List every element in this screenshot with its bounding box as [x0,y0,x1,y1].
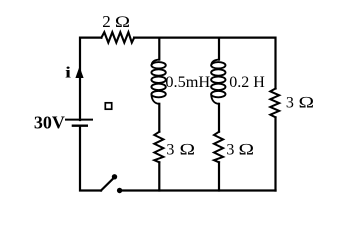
switch S1 blade (open) [101,178,114,190]
svg-text:Ω: Ω [298,94,314,112]
resistor R4 3ohm (right) [270,89,279,118]
switch S1 contact dot left [112,174,117,179]
inductor L1 0.5mH coil [151,60,165,104]
resistor R2 3ohm (branch 1) [154,132,163,163]
svg-text:0.2 H: 0.2 H [229,74,265,91]
wire bottom right segment [122,189,276,191]
svg-text:30V: 30V [34,113,65,133]
wire battery to bottom-left corner and switch blade start [80,126,101,191]
svg-text:i: i [65,64,71,82]
svg-text:2: 2 [102,12,111,31]
wire R4 to bottom-right corner [274,117,276,190]
inductor L2 0.2H coil [211,60,225,104]
svg-text:Ω: Ω [115,13,131,30]
battery V1 30V plates [65,120,93,126]
svg-text:0.5mH: 0.5mH [165,72,210,91]
current arrow i (up) [75,67,83,79]
svg-text:3: 3 [226,141,234,158]
wire L1 to resistor R2 [158,104,160,132]
wire top from R1 to top-right corner [134,38,275,89]
wire L2 to resistor R3 [218,104,220,132]
svg-text:3: 3 [166,141,174,158]
wire node A down to inductor L1 [158,38,160,60]
svg-text:Ω: Ω [179,141,195,159]
svg-text:Ω: Ω [238,141,254,159]
resistor R1 2ohm (top) [101,32,134,42]
switch S1 contact dot right [117,188,122,193]
wire R3 to bottom [218,162,220,190]
wire top-left to resistor R1 [80,38,101,120]
annotation square marker [105,103,111,109]
wire R2 to bottom [158,162,160,190]
svg-text:3: 3 [286,95,294,112]
resistor R3 3ohm (branch 2) [214,132,223,163]
wire node B down to inductor L2 [218,38,220,60]
